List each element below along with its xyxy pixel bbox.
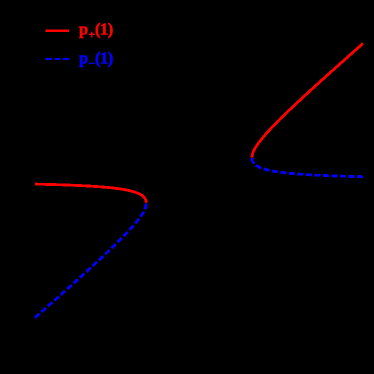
svg-text:+: + [89,29,95,41]
legend sample line p- (blue dashed) [46,58,70,60]
curve p- left branch (blue dashed) [35,203,146,317]
curve p+ left branch (red solid) [35,184,146,203]
svg-text:p: p [79,49,88,68]
svg-text:−: − [89,58,95,70]
legend label p-(1) [79,49,113,71]
curve p+ right branch (red solid) [252,43,363,157]
svg-text:p: p [79,20,88,39]
legend label p+(1) [79,20,113,42]
svg-text:(1): (1) [95,49,113,68]
svg-text:(1): (1) [95,20,113,39]
curve p- right branch (blue dashed) [252,158,363,177]
legend sample line p+ (red solid) [46,30,70,32]
